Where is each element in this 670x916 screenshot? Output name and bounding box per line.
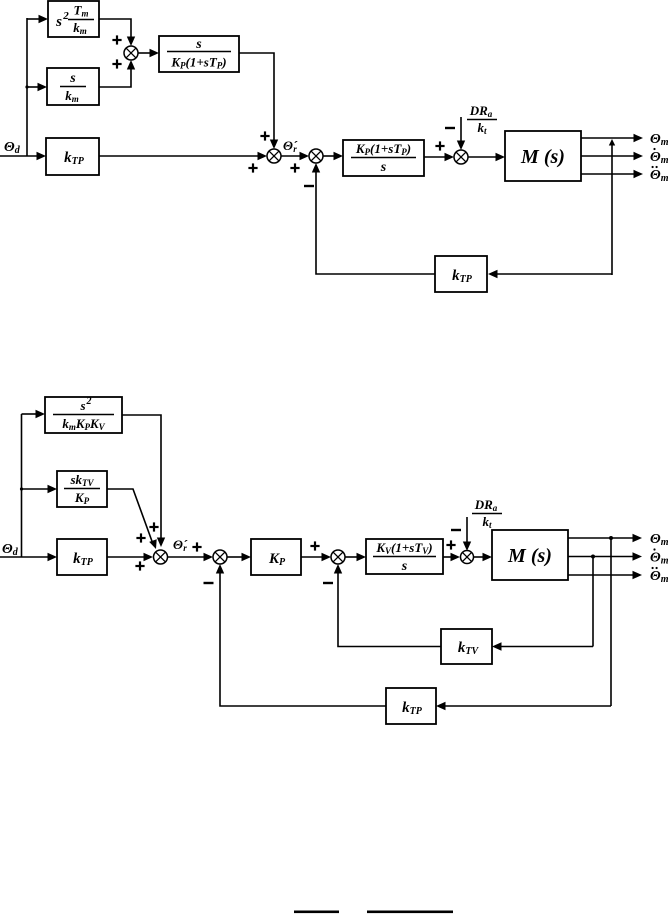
wire branch vertical (top) <box>26 18 28 156</box>
summing junction 6 <box>213 550 227 564</box>
junction at branch to s/km <box>25 85 28 88</box>
wire summing junction 7 to KV(1+sTV)/s block <box>345 553 366 561</box>
wire input main line (top) <box>0 155 38 157</box>
wire kTP feedback tap vertical <box>610 538 612 706</box>
wire kTP feedback to summing junction 6 <box>216 564 386 706</box>
wire feedback horizontal left (top) <box>312 163 435 274</box>
wire skTV/KP output diagonal to summing junction 5 <box>107 489 157 549</box>
wire output 3 Theta_m ddot (top) <box>581 170 643 178</box>
svg-text:kt: kt <box>482 514 492 530</box>
node Theta_m output 1 label (bottom) <box>650 532 669 548</box>
wire kTV feedback tap vertical <box>592 557 594 647</box>
junction at branch to skTV/KP <box>20 487 23 490</box>
svg-text:Θm: Θm <box>650 168 669 184</box>
node Theta_m output 2 label (bottom) <box>650 548 669 566</box>
wire k_TP output to summing junction 2 <box>99 152 267 160</box>
wire output 2 Theta_m dot (top) <box>581 152 643 160</box>
wire summing junction 8 to M(s) <box>474 553 493 561</box>
block s/KP(1+sTP) <box>159 36 239 72</box>
svg-text:s: s <box>69 71 76 86</box>
summing junction 8 <box>461 551 474 564</box>
sign minus at disturbance (bottom) <box>451 529 461 531</box>
node Theta_d input label (top diagram) <box>4 140 21 156</box>
wire output 1 Theta_m (bottom) <box>568 534 642 542</box>
sign plus before summing junction 7 <box>310 541 319 550</box>
junction tap on output 1 (bottom) <box>609 536 613 540</box>
summing junction 5 <box>154 550 168 564</box>
sign plus at summing junction 5 vertical input <box>149 522 158 531</box>
svg-text:Θd: Θd <box>2 542 19 558</box>
svg-text:s: s <box>79 398 85 413</box>
sign plus before summing junction 6 <box>192 542 201 551</box>
node Theta_m output 3 label (top) <box>650 166 669 184</box>
block k_TP (bottom position feedback) <box>386 688 436 724</box>
wire input arrow into k_TP block (top) <box>37 152 47 160</box>
node Theta_d input label (bottom diagram) <box>2 542 19 558</box>
sign plus between summing junctions 2 and 3 <box>290 163 299 172</box>
wire disturbance into summing junction 8 <box>463 517 471 551</box>
wire s2Tm/km output to summing junction 1 <box>99 19 135 46</box>
block k_TV (velocity feedback) <box>441 629 492 664</box>
wire kTV feedback to summing junction 7 <box>334 564 441 647</box>
svg-text:Θ´r: Θ´r <box>283 138 298 154</box>
node Theta_m output 1 label (top) <box>650 132 669 148</box>
wire KP(1+sTP)/s output to summing junction 4 <box>424 153 454 161</box>
sign plus at summing junction 5 left input <box>135 561 144 570</box>
block K_P <box>251 539 301 575</box>
sign plus at summing junction 5 diagonal input <box>136 533 145 542</box>
summing junction 1 <box>124 46 138 60</box>
block k_TP (top feedback) <box>435 256 487 292</box>
wire summing junction 5 to summing junction 6 <box>167 553 213 561</box>
wire branch vertical (bottom) <box>21 414 23 557</box>
wire KP output to summing junction 7 <box>301 553 331 561</box>
svg-text:Θ´r: Θ´r <box>173 537 188 553</box>
svg-text:Θm: Θm <box>650 569 669 585</box>
wire feedback tap vertical (top) <box>609 139 615 275</box>
wire kTP feedback horizontal right <box>436 702 611 710</box>
wire summing junction 1 to s/KP(1+sTP) block <box>138 49 159 57</box>
sign minus at summing junction 3 feedback <box>304 185 314 187</box>
svg-text:DRa: DRa <box>474 497 498 513</box>
node Theta_r_prime label (bottom) <box>173 537 188 553</box>
wire k_TP output arrow into summing junction 5 <box>107 553 153 561</box>
wire branch to skTV/KP block <box>22 485 58 493</box>
node Theta_m output 2 label (top) <box>650 148 669 166</box>
wire branch to s2Tm/km block <box>27 15 48 23</box>
wire s/KP(1+sTP) output to summing junction 2 <box>239 53 278 149</box>
wire input main line (bottom) <box>0 553 57 561</box>
node DRa/kt disturbance label (bottom) <box>472 497 502 530</box>
wire branch to s/km block <box>27 83 47 91</box>
wire output 3 Theta_m ddot (bottom) <box>568 571 642 579</box>
junction tap on output 2 (bottom) <box>591 555 595 559</box>
sign plus before summing junction 8 <box>446 540 455 549</box>
wire summing junction 3 to KP(1+sTP)/s block <box>323 152 343 160</box>
sign minus at summing junction 6 feedback <box>204 582 214 584</box>
node DRa/kt disturbance label (top) <box>467 103 497 136</box>
fraction bar fragment 2 (bottom of page) <box>367 911 453 914</box>
block k_TP (top input path) <box>46 138 99 175</box>
wire output 2 Theta_m dot (bottom) <box>568 552 642 560</box>
wire summing junction 6 to KP block <box>227 553 251 561</box>
svg-text:Θm: Θm <box>650 132 669 148</box>
block KP(1+sTP)/s <box>343 140 424 176</box>
svg-text:2: 2 <box>86 396 92 407</box>
svg-text:Θm: Θm <box>650 551 669 567</box>
sign plus at summing junction 1 bottom <box>112 59 121 68</box>
sign minus at summing junction 7 feedback <box>323 582 333 584</box>
svg-text:DRa: DRa <box>469 103 493 119</box>
summing junction 3 <box>309 149 323 163</box>
wire branch to s2/kmKPKV block <box>22 410 46 418</box>
block M(s) (bottom) <box>492 530 568 580</box>
sign plus at summing junction 4 left <box>435 141 444 150</box>
wire KV(1+sTV)/s output to summing junction 8 <box>443 553 460 561</box>
wire summing junction 4 to M(s) <box>468 153 505 161</box>
block k_TP (bottom input path) <box>57 539 107 575</box>
summing junction 2 <box>267 149 281 163</box>
sign plus at summing junction 2 left <box>248 163 257 172</box>
svg-text:Θm: Θm <box>650 150 669 166</box>
svg-text:s: s <box>401 559 408 574</box>
wire kTV feedback horizontal right <box>492 642 593 650</box>
sign plus at summing junction 2 top <box>260 131 269 140</box>
block s/km <box>47 68 99 105</box>
svg-text:s: s <box>380 160 387 175</box>
fraction bar fragment 1 (bottom of page) <box>294 911 339 914</box>
summing junction 7 <box>331 550 345 564</box>
block KV(1+sTV)/s <box>366 539 443 574</box>
wire s2/kmKPKV output to summing junction 5 <box>122 415 165 547</box>
svg-text:kt: kt <box>477 120 487 136</box>
wire feedback horizontal right (top) <box>488 270 612 278</box>
svg-text:Θd: Θd <box>4 140 21 156</box>
svg-text:M (s): M (s) <box>520 146 565 168</box>
summing junction 4 <box>454 150 468 164</box>
block s^2/kmKPKV <box>45 396 122 433</box>
block M(s) (top) <box>505 131 581 181</box>
wire s/km output to summing junction 1 <box>99 60 135 87</box>
node Theta_r_prime label (top) <box>283 138 298 154</box>
svg-text:2: 2 <box>62 10 69 22</box>
svg-text:Θm: Θm <box>650 532 669 548</box>
svg-text:s: s <box>195 37 202 52</box>
wire disturbance into summing junction 4 <box>457 117 465 150</box>
sign minus at disturbance (top) <box>445 127 455 129</box>
node Theta_m output 3 label (bottom) <box>650 567 669 585</box>
block s^2*Tm/km <box>48 1 99 37</box>
wire summing junction 2 to summing junction 3 <box>281 152 309 160</box>
wire output 1 Theta_m (top) <box>581 134 643 142</box>
block skTV/KP <box>57 471 107 507</box>
svg-text:M (s): M (s) <box>507 545 552 567</box>
sign plus at summing junction 1 top <box>112 35 121 44</box>
svg-text:s: s <box>55 14 62 30</box>
